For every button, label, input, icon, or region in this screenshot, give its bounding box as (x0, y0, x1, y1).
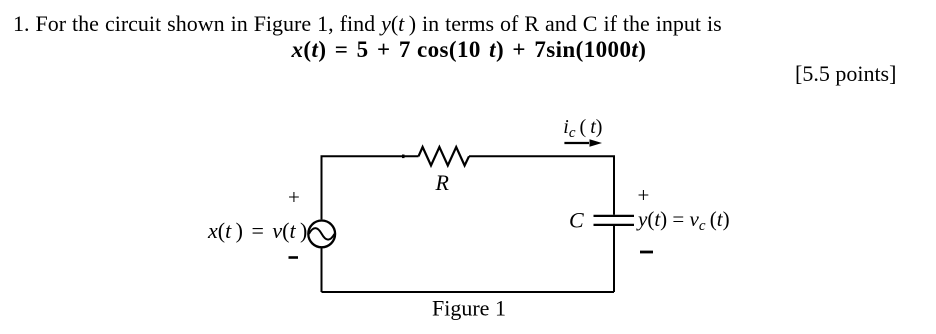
source U1: ac voltage source circle (308, 221, 335, 248)
label R (435, 170, 450, 195)
svg-text:x(t ) = v(t ): x(t ) = v(t ) (207, 218, 307, 243)
plus sign at capacitor (638, 183, 650, 207)
junction tick on top wire (402, 155, 405, 159)
svg-text:y(t) = vc (t): y(t) = vc (t) (636, 207, 730, 234)
capacitor C bottom plate (594, 224, 635, 226)
svg-text:Figure 1: Figure 1 (432, 296, 506, 321)
wire: top-right segment from resistor to top-right corner and down to capacitor (469, 156, 614, 215)
current arrow (564, 139, 602, 147)
svg-text:+: + (638, 183, 650, 207)
minus sign at source (289, 256, 299, 259)
wire: right segment from capacitor down to bottom-right corner (613, 226, 615, 292)
equation x(t) (292, 38, 647, 61)
plus sign at source (288, 185, 300, 209)
wire: bottom segment (322, 291, 615, 293)
capacitor C top plate (594, 215, 635, 217)
resistor R (419, 147, 470, 166)
wire: top-left segment from source top to resistor (322, 156, 419, 219)
current label ic(t) (563, 116, 602, 141)
svg-text:R: R (435, 170, 450, 195)
label C (569, 208, 584, 233)
source sine symbol (309, 228, 335, 240)
wire: bottom-left segment up to source bottom (321, 248, 323, 292)
label x(t)=v(t) (207, 218, 307, 243)
svg-text:+: + (288, 185, 300, 209)
minus sign at capacitor (640, 251, 653, 254)
points label (795, 63, 896, 85)
figure caption (432, 296, 506, 321)
problem statement line 1 (13, 13, 722, 35)
svg-text:ic ( t): ic ( t) (563, 116, 602, 141)
label y(t)=vc(t) (636, 207, 730, 234)
svg-text:C: C (569, 208, 584, 233)
